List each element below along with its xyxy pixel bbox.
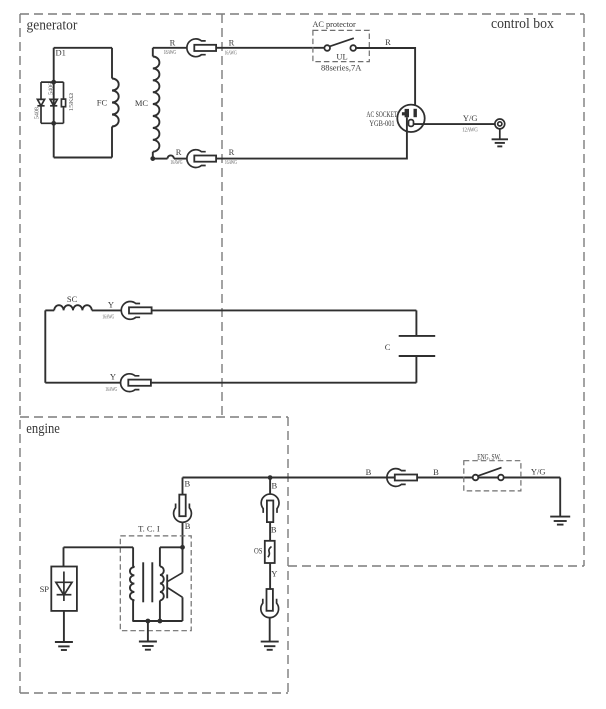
svg-text:R: R: [170, 37, 176, 47]
connector male blade: [194, 45, 216, 51]
coil MC: [152, 48, 154, 57]
svg-text:T. C. I: T. C. I: [138, 523, 160, 533]
switch UL: [324, 45, 330, 51]
svg-text:16AWG: 16AWG: [102, 314, 114, 321]
transformer primary: [132, 547, 134, 566]
svg-text:5406: 5406: [48, 83, 55, 95]
OS box: [265, 541, 275, 563]
generator box (dashed): [20, 13, 584, 15]
connector Y engine: [267, 589, 273, 611]
svg-text:YGB-001: YGB-001: [369, 118, 394, 128]
node MC bottom: [150, 156, 155, 161]
svg-text:15KΩ: 15KΩ: [68, 93, 75, 112]
engine box (dashed): [20, 416, 288, 418]
svg-text:control box: control box: [491, 16, 555, 32]
AC socket YGB-001: [397, 105, 424, 132]
svg-text:16AWG: 16AWG: [105, 386, 117, 393]
svg-text:ENG. SW.: ENG. SW.: [477, 451, 501, 461]
svg-text:Y: Y: [271, 569, 277, 579]
connector Y top: [121, 301, 140, 319]
svg-text:C: C: [385, 342, 391, 352]
OS ground: [261, 641, 279, 643]
engine switch ground: [550, 516, 570, 518]
socket bottom wire: [216, 117, 407, 158]
ground: [499, 129, 501, 140]
wire bars of diode network: [41, 81, 64, 83]
wire R to socket: [356, 48, 415, 117]
svg-text:B: B: [433, 467, 439, 477]
SP ground: [63, 611, 65, 642]
wire R to protector: [216, 47, 324, 49]
svg-text:16AWG: 16AWG: [225, 159, 237, 166]
TCI ground: [147, 621, 149, 642]
svg-text:16AWG: 16AWG: [170, 159, 182, 166]
svg-text:Y/G: Y/G: [463, 113, 478, 123]
diode 5406: [50, 99, 57, 105]
connector B engine: [387, 469, 406, 487]
svg-text:SP: SP: [40, 584, 50, 594]
svg-text:Y/G: Y/G: [531, 466, 546, 476]
node bottom: [51, 121, 56, 126]
connector Y bottom: [121, 374, 140, 392]
coil SC: [45, 309, 54, 311]
capacitor C: [415, 310, 417, 336]
connector bottom R: [187, 150, 206, 168]
svg-text:Y: Y: [108, 299, 114, 309]
diode 5408: [40, 82, 42, 99]
wire Y bottom: [45, 382, 120, 384]
connector (female arc): [187, 39, 206, 57]
resistor 15KΩ: [63, 82, 65, 99]
transformer secondary: [160, 546, 183, 548]
engine main wire: [183, 477, 561, 479]
svg-text:B: B: [271, 525, 277, 535]
svg-text:R: R: [229, 147, 235, 157]
svg-text:R: R: [229, 37, 235, 47]
wire R top: [153, 47, 187, 49]
svg-text:12AWG: 12AWG: [462, 127, 478, 134]
svg-text:OS: OS: [254, 545, 263, 555]
svg-text:R: R: [385, 37, 391, 47]
svg-text:FC: FC: [97, 97, 108, 107]
svg-text:D1: D1: [56, 48, 66, 58]
wire SP to TCI: [64, 546, 134, 548]
node engine: [268, 475, 273, 480]
TCI bottom wire: [132, 620, 182, 622]
wire Y/G to ground terminal: [414, 123, 495, 125]
ENG.SW box: [464, 461, 521, 491]
node top: [51, 80, 56, 85]
SP spark plug: [63, 547, 65, 566]
SC left wire: [44, 310, 46, 382]
coil FC: [112, 79, 119, 127]
ground terminal: [495, 119, 505, 129]
transformer core: [142, 562, 144, 602]
svg-text:generator: generator: [27, 17, 78, 33]
svg-text:Y: Y: [110, 372, 116, 382]
wire R bottom: [153, 158, 168, 160]
control box (dashed): [583, 14, 585, 566]
svg-text:88series,7A: 88series,7A: [321, 63, 362, 73]
node TCI top: [180, 545, 185, 550]
svg-text:18AWG: 18AWG: [164, 49, 177, 56]
svg-text:16AWG: 16AWG: [225, 50, 237, 57]
svg-text:B: B: [185, 478, 191, 488]
switch ENG: [473, 475, 479, 481]
svg-text:MC: MC: [135, 98, 149, 108]
T.C.I box: [120, 536, 191, 631]
svg-text:5408: 5408: [34, 107, 41, 119]
svg-text:UL: UL: [336, 51, 347, 61]
svg-text:R: R: [176, 147, 182, 157]
svg-text:engine: engine: [26, 421, 60, 437]
svg-text:B: B: [272, 480, 278, 490]
svg-text:AC protector: AC protector: [312, 19, 355, 29]
field coil loop wires: [54, 47, 112, 49]
svg-text:B: B: [185, 521, 191, 531]
svg-text:SC: SC: [67, 294, 78, 304]
AC protector box: [313, 30, 369, 61]
transistor: [166, 575, 168, 599]
svg-text:B: B: [366, 467, 372, 477]
